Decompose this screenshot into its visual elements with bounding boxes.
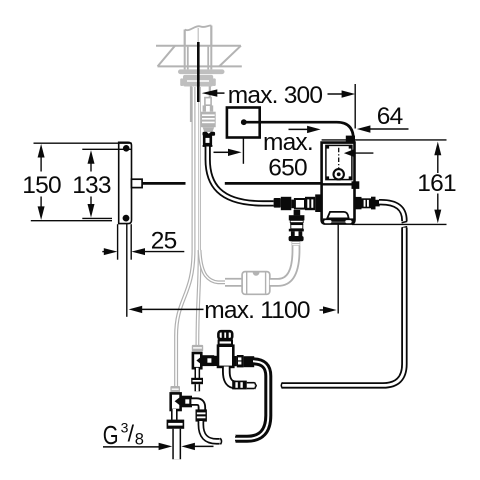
thermostat left port (213, 356, 219, 366)
dim 25 arrow right (144, 251, 185, 253)
black hose thermostat to bottom (235, 361, 268, 439)
outlet hose to mousseur box (200, 250, 243, 282)
svg-text:/: / (128, 420, 135, 446)
svg-text:max.: max. (263, 129, 313, 156)
washer bar under counter (178, 69, 225, 74)
control unit base band (323, 218, 355, 221)
max300 arrow right (328, 93, 344, 95)
shank left wall below nut (190, 87, 192, 123)
max300 arrow left at cable (216, 92, 225, 94)
control unit left foot slot (324, 220, 331, 223)
inlet fitting block (281, 197, 292, 210)
thermostat cap (218, 331, 232, 339)
max1100 right extension line (337, 224, 339, 313)
shank cone cap (203, 127, 215, 134)
supply hose B upper run (198, 87, 201, 252)
compartment corner ticks (326, 145, 329, 148)
dim 150 arrow down (40, 197, 42, 209)
faucet centerline (197, 28, 199, 43)
middle angle valve body (193, 353, 201, 368)
dim 161 bottom extension line (352, 223, 447, 225)
control unit right foot slot (345, 220, 351, 223)
dim 25 arrow left (102, 251, 105, 253)
svg-text:161: 161 (417, 170, 456, 197)
gray hose A end cap (170, 386, 180, 393)
faucet shank outer through counter (184, 47, 186, 70)
dim 150 top extension line (34, 142, 132, 144)
countertop slab top edge (156, 45, 241, 47)
pipe break caps (402, 221, 408, 222)
svg-text:25: 25 (151, 228, 177, 255)
outlet pipe open end cap (281, 382, 282, 388)
supply hose A (to left angle valve) (176, 87, 193, 386)
thermostat right nut (237, 355, 244, 367)
middle valve flow arrow (196, 356, 201, 364)
cable junction box to control unit (244, 122, 354, 142)
faucet body left edge (184, 30, 186, 47)
gray hose B end cap (192, 345, 203, 351)
dim 133 bottom extension line (82, 217, 112, 219)
G3/8 arrow left (103, 446, 160, 448)
check valve band 1 (289, 215, 305, 220)
mousseur box inner left wall (246, 272, 248, 293)
middle valve lower nut (191, 378, 203, 384)
max1100 left extension line (126, 224, 128, 317)
inlet fitting white union (295, 199, 305, 209)
max650 arrow at control unit (289, 128, 309, 130)
inlet fitting mid collar (291, 200, 295, 209)
inlet fitting nut 1 (274, 198, 281, 208)
check valve band 2 (290, 223, 303, 225)
left valve flow arrow (175, 397, 181, 406)
middle valve tail (195, 384, 201, 391)
cable entry pointer arrow (344, 149, 354, 157)
mousseur box inner right wall (265, 272, 267, 293)
wall mounting plate (119, 142, 132, 223)
mounting nut left ear (180, 78, 183, 86)
middle valve right port nut (202, 355, 214, 366)
countertop left break diagonal (158, 46, 175, 67)
outlet pipe upper run (379, 202, 404, 221)
mousseur box top bump (253, 272, 260, 275)
hose crimp sleeve (244, 356, 255, 367)
svg-text:max. 1100: max. 1100 (204, 297, 310, 324)
gray hose check valve to mousseur box (270, 246, 296, 283)
shank small fitting (205, 98, 211, 106)
shank right wall below nut (209, 87, 211, 99)
dim 161 top extension line (322, 139, 447, 141)
control unit battery compartment (326, 145, 352, 179)
control unit outer box (322, 143, 355, 224)
junction box terminal dot (241, 119, 247, 125)
svg-text:max. 300: max. 300 (228, 82, 323, 109)
dim 150 arrow up (40, 156, 42, 172)
check valve white ring (290, 220, 303, 222)
plate screw hole top (123, 145, 130, 152)
inlet fitting slotted nut (305, 197, 315, 210)
mousseur box (242, 272, 270, 295)
compartment dash-dot axis (338, 148, 340, 172)
countertop right break diagonal (219, 46, 241, 67)
shank threaded block (201, 112, 216, 128)
max1100 arrow left (141, 308, 204, 310)
G3/8 arrow right (194, 445, 214, 447)
mounting nut body (183, 75, 213, 87)
bottom tube cut end (220, 438, 221, 444)
dim 25 extension lines (117, 224, 119, 260)
tube to bottom curve (201, 421, 220, 441)
svg-text:G: G (103, 420, 119, 450)
wall line right segment (225, 182, 322, 185)
dim 64 arrow (370, 128, 409, 130)
check valve white body (291, 225, 303, 229)
outlet hose fat section into box (225, 278, 242, 287)
shank clip right prong (210, 105, 213, 111)
nipple cut end (254, 382, 256, 389)
plug body (204, 137, 211, 145)
drain screw circle (334, 169, 344, 179)
check valve band 3 (289, 229, 304, 232)
mounting nut highlight slot (187, 80, 209, 82)
black hose cut end (234, 435, 235, 443)
control unit right inner block (352, 181, 360, 189)
max1100 arrow right (320, 309, 325, 311)
check valve lower connector (289, 236, 304, 241)
control unit base bracket (327, 212, 349, 219)
junction box stem (242, 138, 244, 164)
left valve outlet tube down (171, 409, 178, 420)
plate tab (132, 179, 143, 187)
dim 133 top extension line (82, 148, 132, 150)
max300 extension line (354, 84, 356, 129)
control unit divider (322, 183, 355, 185)
tee neck down (294, 210, 301, 215)
middle valve outlet tube (195, 368, 201, 378)
sensor cable junction box (227, 108, 260, 138)
supply hose B lower run (to middle valve) (197, 250, 199, 345)
supply hose faucet to control unit (208, 147, 274, 204)
svg-text:8: 8 (135, 430, 144, 448)
svg-text:133: 133 (72, 172, 111, 199)
left angle valve body (171, 393, 181, 410)
outlet fitting at control unit right (355, 197, 362, 209)
left valve right port nut (182, 396, 193, 408)
svg-text:650: 650 (268, 155, 307, 182)
wall line left segment (142, 182, 185, 185)
check valve stem (291, 231, 302, 236)
thermostat right port (233, 356, 237, 366)
thermostat neck band (219, 340, 232, 344)
plug band (203, 145, 213, 147)
dim 161 arrow up (437, 155, 439, 174)
gray nipple below check valve (292, 241, 301, 246)
dim 161 arrow down (437, 194, 439, 211)
faucet shank inner walls (187, 47, 189, 70)
faucet body right edge (210, 26, 212, 47)
G3/8 supply tail pipe (172, 429, 181, 460)
thermostat bottom elbow (226, 367, 236, 385)
outlet pipe lower run (283, 228, 405, 386)
faucet body break wavy top (185, 25, 212, 30)
countertop slab bottom edge (158, 65, 242, 67)
threaded nipple (247, 382, 254, 389)
svg-text:64: 64 (377, 103, 403, 130)
max650 arrow at stem (214, 151, 230, 153)
plug cap (203, 132, 216, 136)
bottom elbow nut (232, 381, 247, 390)
sensor cable in shank (197, 42, 200, 102)
plate screw hole bottom (123, 215, 130, 222)
svg-text:150: 150 (22, 172, 61, 199)
dim 150 bottom extension line (31, 220, 112, 222)
inlet collar at control unit (315, 194, 322, 212)
supply union nut (167, 420, 185, 429)
cable gland on top (346, 136, 355, 144)
dim 133 arrow up (90, 162, 92, 172)
thermostat main body (218, 346, 233, 367)
mounting nut right ear (213, 78, 216, 86)
left valve elbow tube (191, 402, 202, 410)
ribbed compression nut (196, 409, 207, 421)
shank clip left prong (203, 105, 206, 111)
dim 133 arrow down (90, 197, 92, 206)
